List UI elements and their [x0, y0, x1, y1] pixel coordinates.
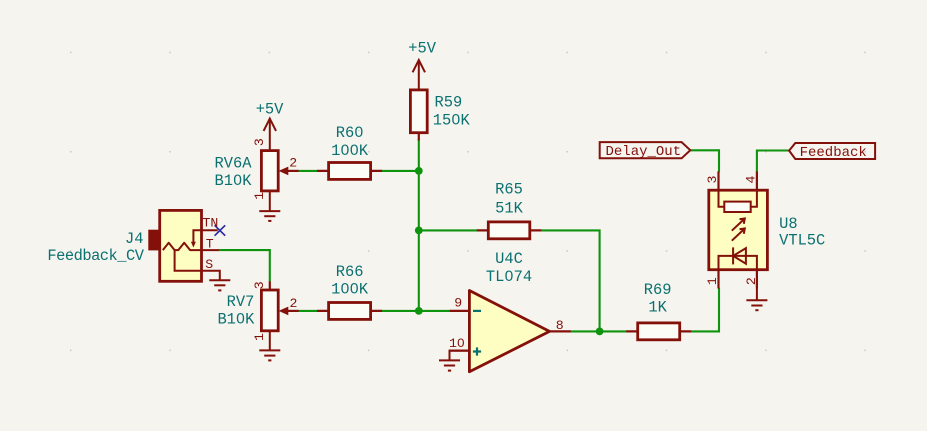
svg-text:Feedback: Feedback [800, 145, 867, 161]
svg-text:J4: J4 [125, 230, 143, 248]
svg-text:1K: 1K [648, 299, 667, 317]
svg-text:4: 4 [743, 175, 758, 183]
svg-text:100K: 100K [331, 281, 369, 299]
svg-text:+5V: +5V [408, 40, 436, 58]
svg-text:B10K: B10K [215, 172, 253, 190]
svg-text:2: 2 [289, 155, 297, 170]
svg-text:3: 3 [252, 138, 267, 146]
svg-text:8: 8 [556, 318, 564, 333]
svg-text:T: T [206, 237, 214, 252]
svg-text:3: 3 [252, 281, 267, 289]
svg-text:1: 1 [252, 333, 267, 341]
svg-text:B10K: B10K [217, 310, 255, 328]
svg-text:150K: 150K [433, 112, 471, 130]
svg-text:1: 1 [705, 277, 720, 285]
svg-text:R65: R65 [495, 181, 523, 199]
svg-text:1: 1 [252, 192, 267, 200]
svg-text:100K: 100K [331, 142, 369, 160]
svg-text:10: 10 [449, 336, 465, 351]
svg-text:9: 9 [454, 295, 462, 310]
svg-text:VTL5C: VTL5C [779, 232, 825, 250]
svg-text:RV6A: RV6A [215, 155, 253, 173]
svg-text:Feedback_CV: Feedback_CV [47, 247, 144, 265]
svg-text:2: 2 [290, 296, 298, 311]
svg-text:R59: R59 [435, 94, 463, 112]
svg-text:U8: U8 [779, 215, 797, 233]
svg-text:2: 2 [744, 277, 759, 285]
svg-text:3: 3 [705, 175, 720, 183]
svg-text:Delay_Out: Delay_Out [606, 144, 682, 160]
svg-text:U4C: U4C [495, 250, 523, 268]
svg-text:RV7: RV7 [227, 293, 255, 311]
svg-text:+5V: +5V [256, 101, 284, 119]
svg-text:R66: R66 [336, 263, 364, 281]
svg-text:R69: R69 [644, 281, 672, 299]
svg-text:S: S [205, 257, 213, 272]
svg-text:51K: 51K [495, 199, 523, 217]
svg-text:TN: TN [203, 215, 219, 230]
